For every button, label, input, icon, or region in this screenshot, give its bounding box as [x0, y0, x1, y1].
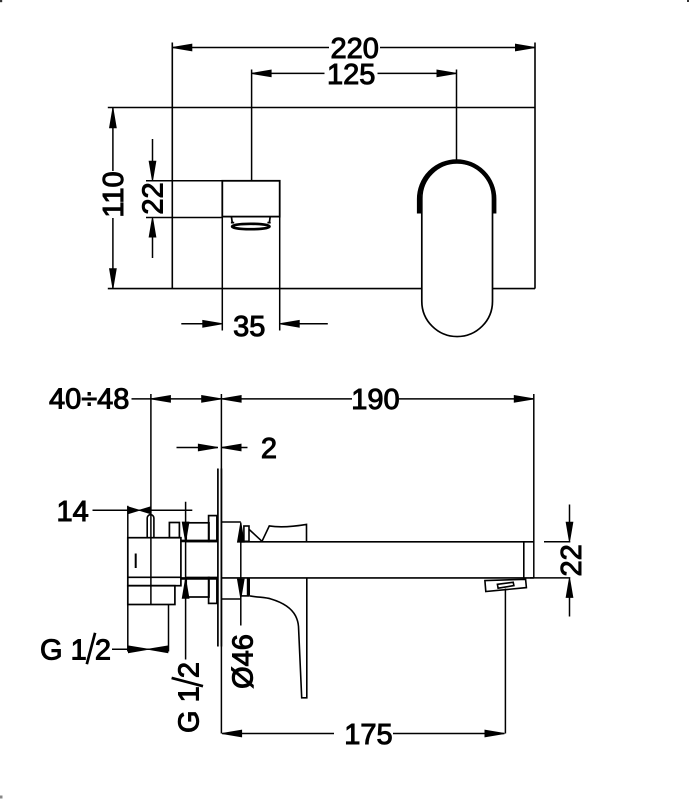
svg-text:125: 125 — [327, 59, 375, 91]
svg-text:2: 2 — [261, 433, 277, 465]
svg-text:G 1 2: G 1 2 — [40, 635, 111, 667]
svg-text:Ø46: Ø46 — [227, 634, 259, 689]
svg-text:14: 14 — [56, 496, 88, 528]
svg-text:G 1 2: G 1 2 — [173, 662, 205, 733]
svg-text:22: 22 — [556, 544, 588, 576]
svg-text:35: 35 — [233, 311, 265, 343]
svg-text:190: 190 — [351, 384, 399, 416]
svg-text:175: 175 — [344, 719, 392, 751]
svg-text:110: 110 — [98, 171, 130, 217]
svg-text:22: 22 — [138, 182, 170, 214]
svg-text:40÷48: 40÷48 — [49, 384, 129, 416]
